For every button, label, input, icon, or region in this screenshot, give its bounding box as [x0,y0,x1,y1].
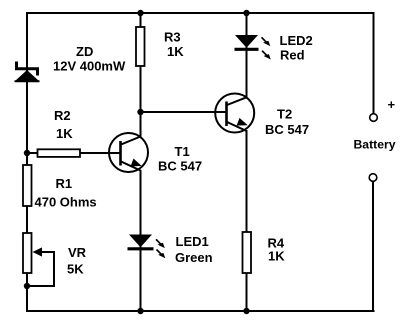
svg-text:T2: T2 [277,107,292,122]
svg-text:ZD: ZD [76,44,93,59]
svg-text:T1: T1 [175,144,190,159]
svg-text:Red: Red [280,48,305,63]
svg-text:R1: R1 [56,176,73,191]
svg-text:Green: Green [175,250,213,265]
svg-text:1K: 1K [167,44,184,59]
svg-text:+: + [388,97,396,112]
svg-text:Battery: Battery [354,138,396,152]
svg-text:BC 547: BC 547 [158,159,202,174]
svg-text:LED1: LED1 [176,234,209,249]
svg-text:LED2: LED2 [280,33,313,48]
svg-text:5K: 5K [67,262,84,277]
svg-text:R2: R2 [54,108,71,123]
svg-text:12V 400mW: 12V 400mW [53,59,126,74]
svg-text:BC 547: BC 547 [265,122,309,137]
svg-text:1K: 1K [268,249,285,264]
svg-text:R3: R3 [164,30,181,45]
svg-text:1K: 1K [56,126,73,141]
svg-text:VR: VR [68,245,87,260]
svg-text:470 Ohms: 470 Ohms [35,195,97,210]
